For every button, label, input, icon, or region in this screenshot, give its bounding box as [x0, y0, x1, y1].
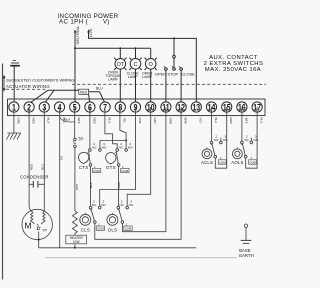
pin labels OLS 2 NC 3 NO	[119, 199, 134, 207]
junction neutral-lampline	[74, 47, 76, 49]
wire terminal 2 to motor	[29, 107, 31, 211]
wire customer horizontal bus	[48, 89, 79, 91]
lamp O	[145, 58, 157, 70]
wire neutral vertical	[74, 30, 76, 107]
terminal 12	[176, 101, 186, 112]
terminal 15	[222, 101, 232, 112]
limit switch OLS cam	[107, 213, 118, 225]
title INCOMING POWER	[58, 13, 119, 26]
wire terminal 4 down to bottom rail	[59, 107, 61, 248]
terminals 1-17	[9, 101, 262, 112]
svg-text:MAX. 250VAC 16A: MAX. 250VAC 16A	[205, 67, 261, 73]
svg-text:GRN: GRN	[117, 182, 121, 189]
frame left border	[2, 64, 4, 280]
svg-text:NC: NC	[92, 146, 97, 150]
wire O lamp to terminal 10	[150, 69, 152, 107]
svg-text:BLU: BLU	[260, 118, 264, 124]
wire terminal 1 to internal earth	[13, 107, 15, 134]
arrowhead live	[87, 30, 90, 33]
pin labels CTS 2 NC 3 NO	[92, 142, 107, 150]
svg-text:ORG: ORG	[168, 118, 172, 126]
svg-text:O: O	[149, 62, 154, 68]
terminal 9	[130, 101, 140, 112]
svg-text:YEL: YEL	[123, 118, 127, 124]
svg-text:COM: COM	[219, 160, 226, 164]
thermal protector TP	[73, 137, 83, 148]
pin label CLS 1 COM	[96, 223, 104, 231]
svg-text:NC: NC	[214, 138, 219, 142]
svg-text:COM: COM	[122, 169, 129, 173]
wire CLOSE button to terminal 12	[180, 70, 182, 107]
pin label ACLS 1 COM	[218, 156, 226, 164]
frame bottom faint line	[45, 257, 237, 259]
internal earth hatch 7777	[7, 133, 21, 140]
svg-text:PNK: PNK	[138, 118, 142, 124]
svg-text:COM: COM	[125, 227, 132, 231]
label OPEN LAMP	[142, 72, 153, 80]
svg-text:OPEN: OPEN	[155, 71, 166, 76]
svg-text:WHI: WHI	[77, 118, 81, 124]
wire terminal 3 to motor	[43, 107, 45, 211]
svg-text:BLU: BLU	[108, 118, 112, 124]
svg-text:GRE: GRE	[16, 118, 20, 125]
svg-text:0.5: 0.5	[59, 155, 63, 160]
boundary dashed customer/actuator	[72, 83, 266, 85]
terminal 17	[252, 101, 262, 112]
wire customer diagonal from terminal 3	[44, 90, 54, 103]
svg-text:10W: 10W	[73, 240, 81, 244]
wire terminal 9 to CLS NO	[100, 107, 136, 206]
junction C lamp	[135, 47, 137, 49]
svg-text:COM: COM	[249, 160, 256, 164]
label OVER TORQUE LAMP	[105, 70, 121, 81]
svg-text:RED: RED	[32, 118, 36, 125]
wire lamp feed from neutral	[75, 47, 151, 49]
wire NO bus	[100, 140, 126, 142]
svg-text:RED: RED	[29, 163, 33, 170]
svg-text:CLOSE: CLOSE	[181, 71, 195, 76]
pin label OTS 1 COM	[121, 165, 129, 173]
junction NO bus	[125, 140, 127, 142]
pin labels AOLS 2 NC 3 NO	[244, 135, 258, 142]
wire bus drop to CTS NO	[99, 141, 101, 149]
svg-text:COM: COM	[93, 169, 100, 173]
wire bus drop to OTS NO	[125, 141, 127, 149]
svg-text:CLS: CLS	[81, 227, 90, 232]
capacitor condenser	[29, 181, 44, 188]
svg-text:ACTUATOR WIRING: ACTUATOR WIRING	[6, 84, 50, 89]
terminal 8	[115, 101, 125, 112]
pin label CTS 1 COM	[92, 165, 100, 173]
svg-text:COM: COM	[97, 227, 104, 231]
wire terminal 10 to OLS NO	[127, 107, 151, 206]
aux switch ACLS cam	[202, 147, 212, 158]
svg-text:GRY: GRY	[75, 184, 79, 190]
svg-text:NO: NO	[101, 203, 106, 207]
svg-text:13: 13	[192, 101, 200, 112]
svg-text:BLU: BLU	[96, 87, 103, 91]
wire terminal 8 to NO bus	[120, 107, 126, 141]
tag RED	[79, 89, 89, 94]
earth symbol above terminal 1	[10, 61, 20, 107]
terminal 1	[9, 101, 19, 112]
wire curve BLA from terminal 4 area	[60, 117, 76, 122]
svg-text:WHI: WHI	[89, 183, 93, 189]
svg-text:WHI: WHI	[244, 118, 248, 124]
svg-text:TP: TP	[78, 137, 84, 142]
wire heater to bottom rail	[74, 235, 76, 248]
svg-text:NC: NC	[119, 146, 124, 150]
limit switch CLS contacts	[89, 206, 101, 223]
terminal 16	[237, 101, 247, 112]
svg-text:RED: RED	[92, 118, 96, 125]
aux switch AOLS contacts	[241, 141, 253, 158]
terminal 10	[146, 101, 156, 112]
svg-text:NO: NO	[253, 138, 258, 142]
svg-text:LAMP: LAMP	[108, 78, 118, 82]
wire terminal 7 to OTS NC	[105, 107, 117, 149]
wire bottom rail motor-heater-terminal13	[39, 247, 197, 249]
svg-text:NEUTRAL: NEUTRAL	[75, 25, 80, 44]
svg-text:NO: NO	[129, 203, 134, 207]
svg-text:NC: NC	[244, 138, 249, 142]
wire OPEN button to terminal 11	[165, 70, 167, 107]
wire OLS COM to terminal 11	[122, 107, 165, 232]
ground BASE EARTH	[241, 224, 252, 243]
svg-text:NC: NC	[119, 203, 124, 207]
svg-text:NO: NO	[128, 146, 133, 150]
torque switch CTS contacts	[88, 149, 102, 167]
wire TP to heater	[74, 148, 76, 211]
junction heater bottom rail	[74, 247, 76, 249]
svg-text:C: C	[133, 62, 137, 68]
svg-text:ACLS: ACLS	[201, 160, 213, 165]
svg-text:NO: NO	[102, 146, 107, 150]
motor M	[22, 209, 52, 248]
svg-text:BLA: BLA	[65, 117, 71, 121]
aux switch AOLS cam	[233, 147, 243, 158]
terminal 6	[85, 101, 95, 112]
svg-text:AOLS: AOLS	[231, 160, 243, 165]
svg-text:CONDENSER: CONDENSER	[20, 175, 49, 180]
svg-text:V): V)	[103, 18, 109, 25]
wire customer diagonal from terminal 2	[29, 90, 48, 103]
svg-text:M: M	[25, 220, 32, 230]
svg-text:BLA: BLA	[214, 118, 218, 124]
label AUX CONTACT block	[204, 55, 264, 73]
wire drop to OT lamp	[119, 48, 121, 58]
aux switch ACLS contacts	[210, 141, 222, 158]
wire C lamp to terminal 9	[135, 69, 137, 107]
wire CTS COM to CLS NC	[90, 166, 92, 206]
wire terminal 16 to AOLS NC	[241, 107, 243, 141]
svg-text:OLS: OLS	[108, 227, 118, 232]
push button CLOSE	[179, 66, 182, 70]
junction OT lamp	[119, 47, 121, 49]
wire tag to terminal 7	[89, 92, 106, 104]
resistor heater	[73, 211, 78, 235]
terminal 5	[70, 101, 80, 112]
svg-text:LAMP: LAMP	[128, 75, 138, 79]
limit switch CLS cam	[80, 213, 91, 225]
terminal 14	[206, 101, 216, 112]
svg-text:LAMP: LAMP	[142, 75, 152, 79]
terminal 7	[100, 101, 110, 112]
svg-text:BRN: BRN	[184, 118, 188, 124]
terminal 13	[191, 101, 201, 112]
pin labels ACLS 2 NC 3 NO	[214, 135, 228, 142]
label HEATER 10W	[66, 235, 87, 244]
limit switch OLS contacts	[117, 206, 129, 223]
label BASE EARTH	[239, 248, 254, 258]
wire drop to O lamp	[150, 48, 152, 58]
wire CLS COM to terminal 12	[95, 107, 181, 239]
terminal 11	[161, 101, 171, 112]
terminal 2	[24, 101, 34, 112]
push button OPEN	[164, 66, 167, 70]
svg-text:BLU: BLU	[40, 164, 44, 170]
svg-text:BLU: BLU	[47, 118, 51, 124]
wire drop to C lamp	[135, 48, 137, 58]
svg-text:OTS: OTS	[106, 165, 116, 170]
junction neutral customer bus	[74, 89, 76, 91]
wire OT lamp to terminal 8	[119, 69, 121, 107]
svg-text:RED: RED	[80, 90, 88, 94]
torque switch OTS cam	[106, 153, 116, 164]
svg-text:TP: TP	[42, 229, 47, 233]
svg-text:STOP: STOP	[167, 71, 178, 76]
wire live down and across to terminal 13	[89, 30, 197, 107]
svg-text:VIO: VIO	[199, 118, 203, 124]
boundary double arrow	[3, 75, 6, 92]
svg-text:AC 1PH (: AC 1PH (	[59, 18, 89, 25]
pin label OLS 1 COM	[124, 223, 132, 231]
svg-text:GRY: GRY	[153, 118, 157, 124]
wire terminal 5 to TP	[74, 107, 76, 138]
label CLOSE LAMP	[127, 72, 140, 80]
torque switch OTS contacts	[115, 149, 127, 167]
wire AOLS NO stub	[250, 138, 252, 142]
wire live to stop button	[173, 38, 175, 55]
wire terminal 6 to CTS NC	[89, 107, 91, 149]
pin labels OTS 2 NC 3 NO	[119, 142, 133, 150]
svg-text:EARTH: EARTH	[239, 253, 254, 258]
wire ACLS COM to terminal 15	[215, 107, 226, 168]
pin label AOLS 1 COM	[249, 156, 257, 164]
wire tag to terminal 6	[89, 94, 90, 103]
svg-text:8: 8	[118, 101, 122, 112]
lamp C	[129, 58, 141, 70]
svg-text:OT: OT	[117, 62, 124, 68]
arrowhead neutral	[74, 30, 77, 33]
junction stop button on live	[173, 37, 175, 39]
svg-text:CTS: CTS	[79, 165, 89, 170]
wire ACLS NO stub	[220, 138, 222, 142]
torque switch CTS cam	[79, 152, 89, 163]
wire AOLS COM to terminal 17	[246, 107, 257, 168]
terminal strip	[8, 99, 266, 116]
lamp OT	[114, 58, 126, 70]
svg-text:RED: RED	[229, 118, 233, 125]
svg-text:NC: NC	[92, 203, 97, 207]
push button STOP	[172, 55, 175, 70]
pin labels CLS 2 NC 3 NO	[92, 199, 107, 207]
wire OTS COM to OLS NC	[118, 166, 120, 206]
svg-text:NO: NO	[223, 138, 228, 142]
terminal 4	[54, 101, 64, 112]
svg-text:SUGGESTED CUSTOMER'S WIRING: SUGGESTED CUSTOMER'S WIRING	[6, 78, 74, 83]
terminal 3	[39, 101, 49, 112]
wire terminal 14 to ACLS NC	[211, 107, 213, 141]
